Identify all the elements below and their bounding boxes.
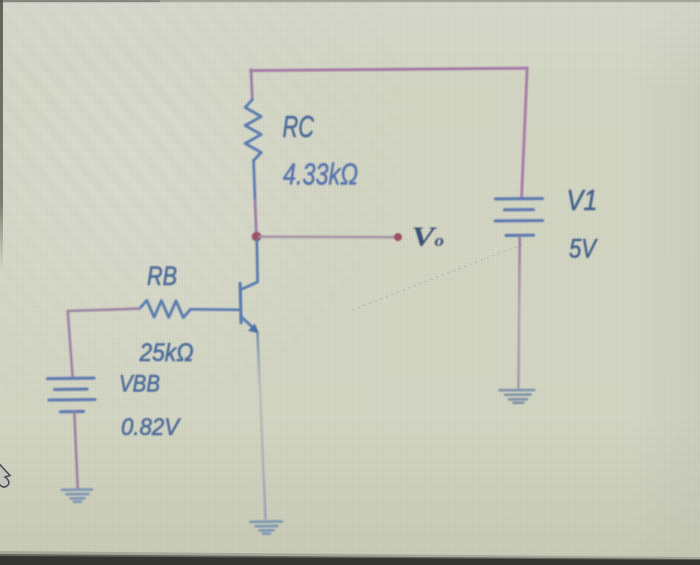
wire RC top lead bbox=[251, 70, 252, 100]
resistor RB bbox=[140, 300, 191, 317]
svg-text:RB: RB bbox=[147, 261, 177, 291]
label VBB bbox=[119, 371, 160, 398]
wire emitter to ground bbox=[258, 334, 266, 519]
svg-text:4.33kΩ: 4.33kΩ bbox=[283, 157, 358, 192]
svg-text:0.82V: 0.82V bbox=[121, 414, 181, 441]
ground V1 bbox=[500, 390, 535, 403]
svg-text:V: V bbox=[412, 222, 438, 252]
svg-text:o: o bbox=[435, 231, 445, 250]
battery V1 bbox=[495, 199, 542, 236]
battery VBB bbox=[48, 378, 96, 412]
wire top rail bbox=[251, 68, 528, 70]
node Vo terminal dot bbox=[394, 233, 402, 241]
label RB value 25k bbox=[139, 339, 194, 367]
svg-text:5V: 5V bbox=[569, 234, 598, 264]
svg-text:VBB: VBB bbox=[119, 371, 160, 398]
wire Vo stub bbox=[259, 236, 394, 239]
label V1 bbox=[567, 185, 598, 217]
wire V1 ground lead bbox=[518, 236, 519, 388]
wire VBB top lead bbox=[68, 311, 73, 377]
ground VBB bbox=[62, 489, 92, 501]
wire RC bottom lead bbox=[254, 161, 257, 234]
wire base from RB bbox=[191, 308, 241, 311]
transistor Q1 emitter with arrow bbox=[241, 317, 259, 334]
wire V1 top lead bbox=[522, 68, 528, 196]
svg-text:V1: V1 bbox=[567, 185, 598, 217]
resistor RC bbox=[245, 100, 261, 161]
svg-text:RC: RC bbox=[283, 109, 315, 144]
label VBB value 0.82V bbox=[121, 414, 181, 441]
label RC value 4.33k bbox=[283, 157, 358, 192]
label V1 value 5V bbox=[569, 234, 598, 264]
wire VBB to RB bbox=[68, 309, 140, 311]
label RB bbox=[147, 261, 177, 291]
svg-text:25kΩ: 25kΩ bbox=[139, 339, 194, 367]
transistor Q1 collector lead bbox=[241, 241, 258, 290]
transistor Q1 base bar bbox=[240, 284, 241, 323]
node collector junction dot bbox=[252, 232, 262, 242]
ground emitter bbox=[251, 521, 282, 533]
label Vo bbox=[412, 222, 445, 252]
wire VBB ground lead bbox=[74, 412, 77, 488]
label RC bbox=[283, 109, 315, 144]
